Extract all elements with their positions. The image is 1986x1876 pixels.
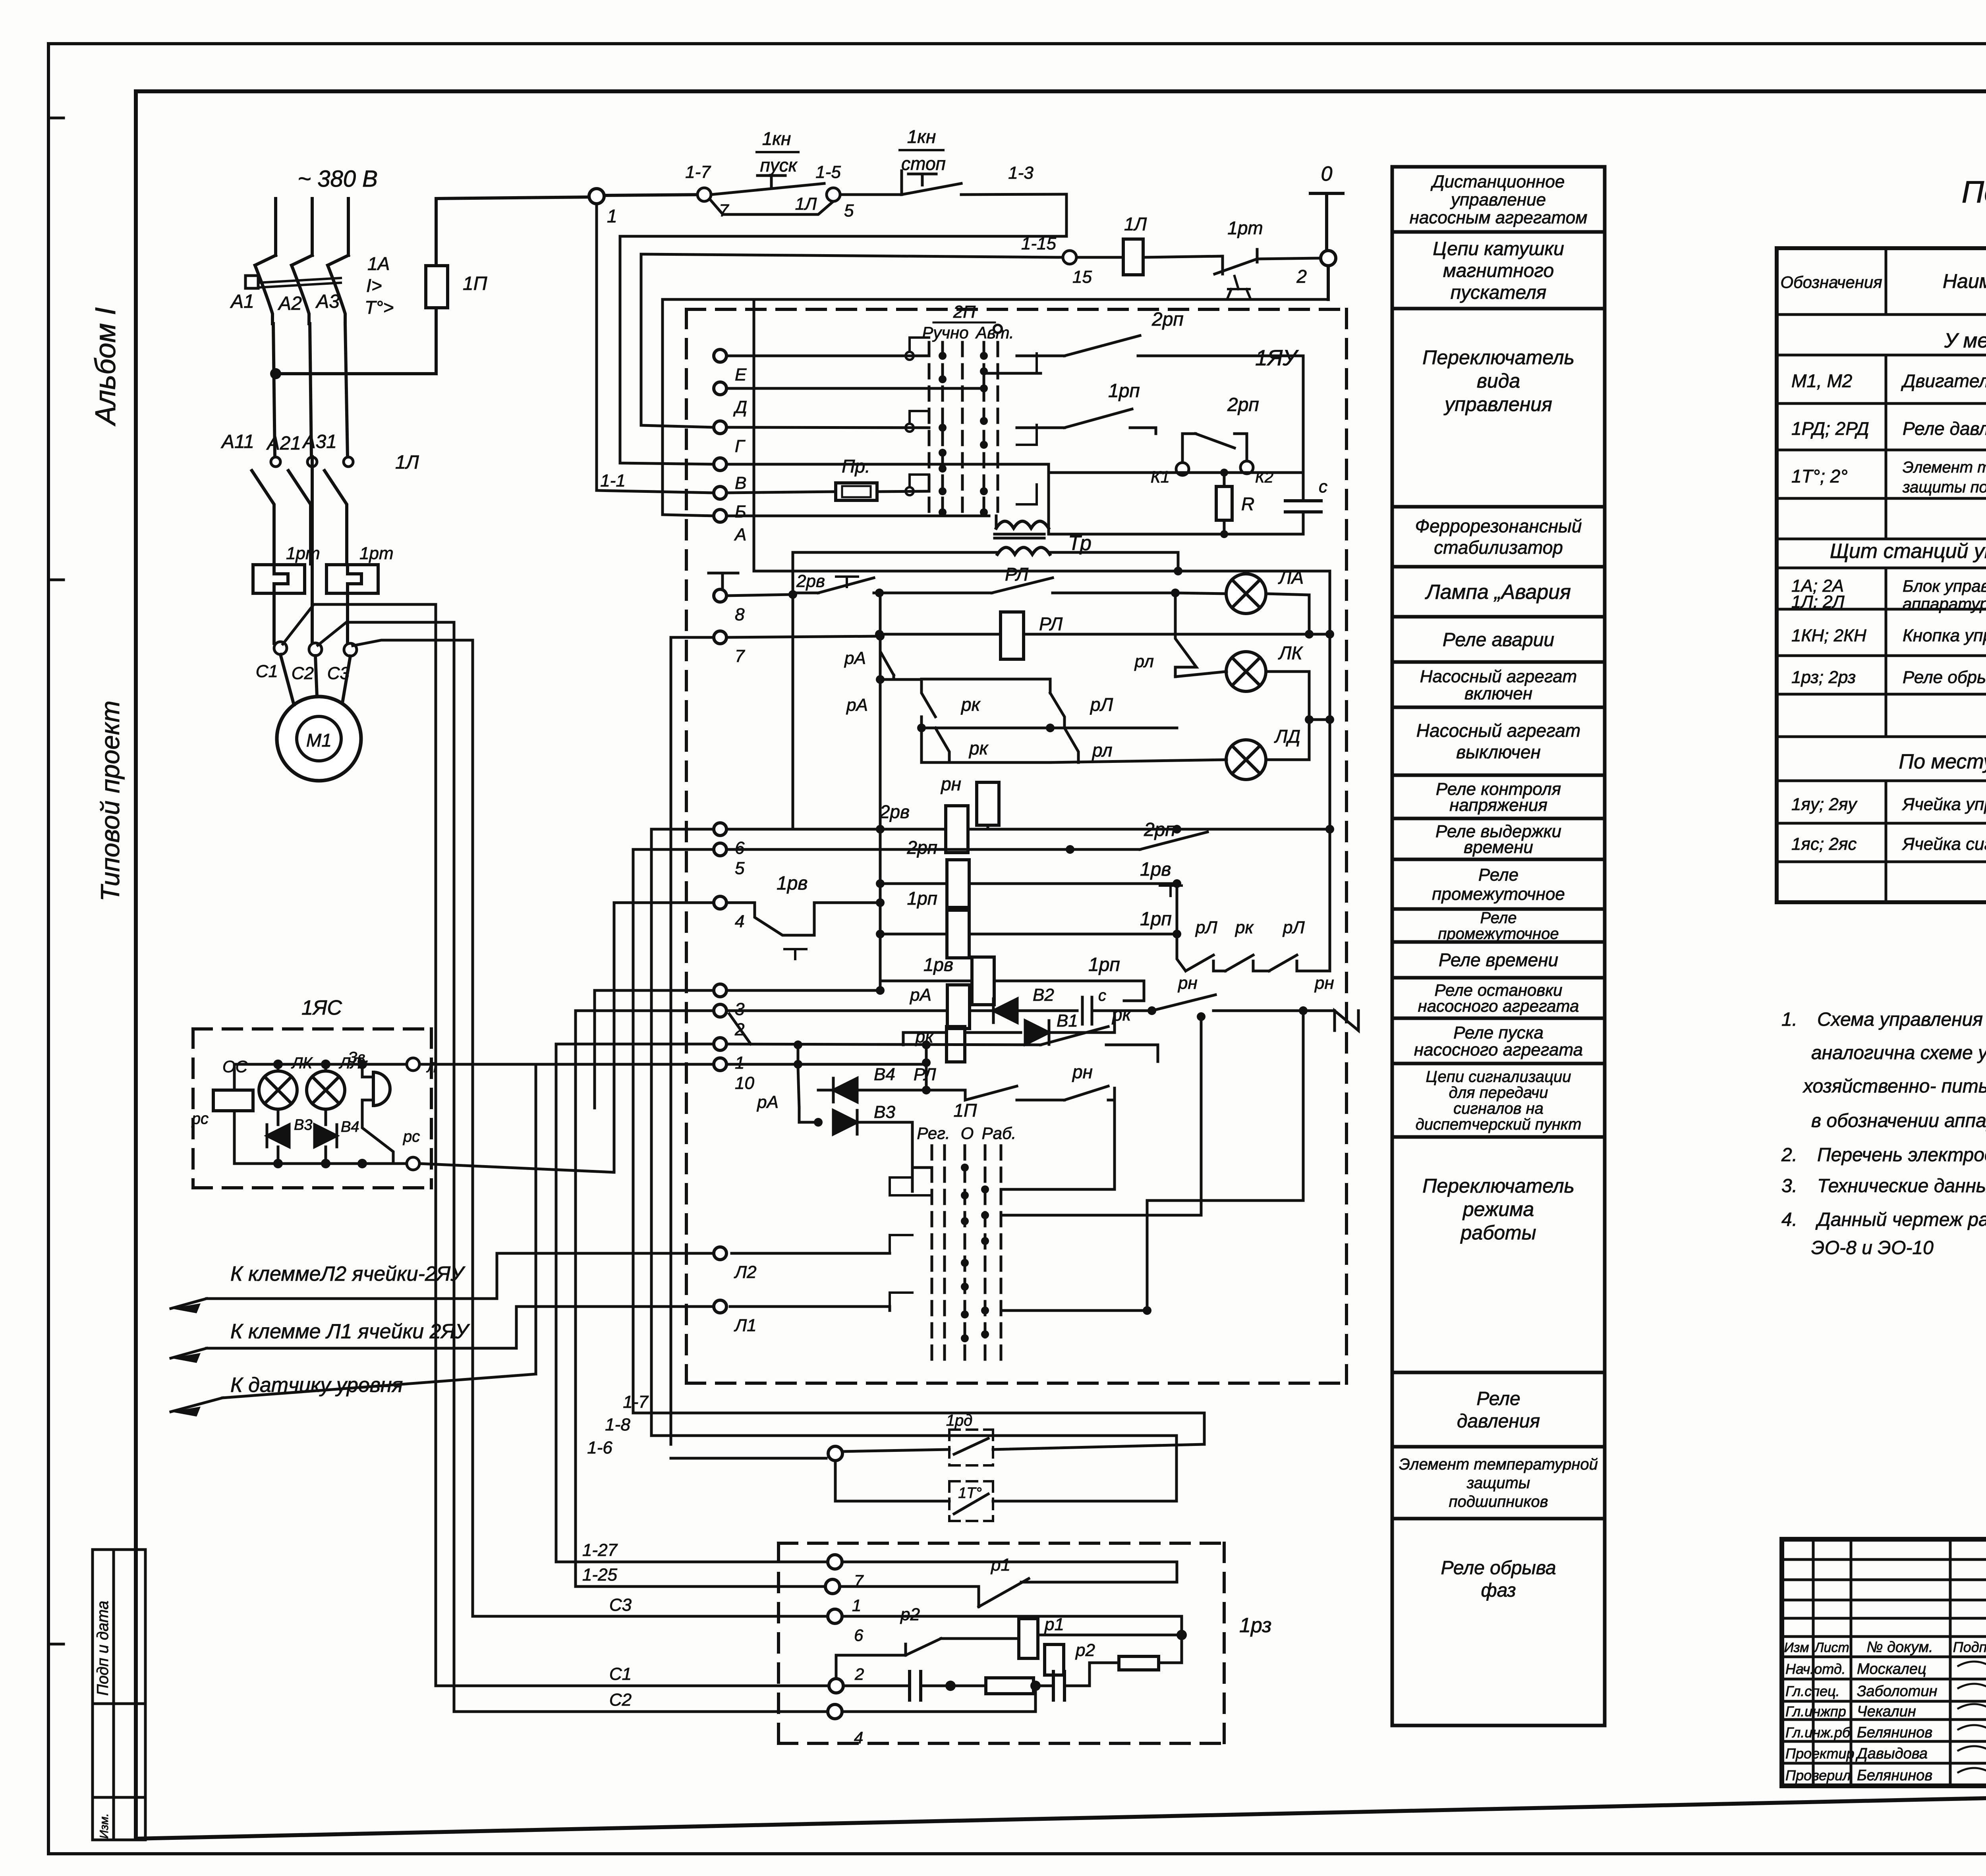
terminal 0 of control supply xyxy=(1310,162,1343,251)
svg-text:Гл.инж.рб: Гл.инж.рб xyxy=(1785,1724,1851,1741)
wire terminal Е row to switch xyxy=(726,355,929,357)
row 1 wire with contact рк xyxy=(726,1004,1158,1062)
svg-text:р2: р2 xyxy=(1075,1641,1095,1660)
terminal 6 of 1рз xyxy=(828,1609,864,1644)
terminal С3 xyxy=(344,643,357,656)
pressure relay contact 1рд dashed box xyxy=(946,1412,1204,1465)
svg-text:4: 4 xyxy=(854,1728,863,1747)
svg-text:пускателя: пускателя xyxy=(1451,282,1547,303)
svg-text:пуск: пуск xyxy=(760,155,798,176)
svg-text:В3: В3 xyxy=(874,1102,895,1122)
svg-text:По месту: По месту xyxy=(1899,750,1986,773)
svg-text:Л2: Л2 xyxy=(734,1262,757,1282)
svg-text:1кн: 1кн xyxy=(762,128,791,149)
svg-text:1рв: 1рв xyxy=(777,873,808,894)
mode switch 2П dashed gang lines xyxy=(929,342,998,520)
svg-text:R: R xyxy=(1241,494,1254,514)
terminal 3 of cell 1ЯУ xyxy=(714,984,745,1019)
row 1ЯС 2ЯС Ячейка сигнализации xyxy=(1791,833,1986,854)
signal cell 1ЯС dashed enclosure xyxy=(193,996,431,1188)
row 3 wire xyxy=(726,989,880,992)
svg-text:С2: С2 xyxy=(609,1690,632,1710)
svg-text:Гл.инжпр: Гл.инжпр xyxy=(1785,1703,1846,1720)
svg-text:рЛ: рЛ xyxy=(1090,694,1113,715)
wire terminal Б row to fuse Пр xyxy=(726,492,836,493)
function box Насосный агрегат xyxy=(1392,662,1605,707)
svg-text:рк: рк xyxy=(1111,1004,1132,1025)
wire from node to fuse 1П xyxy=(276,308,436,374)
vertical loop wire x1561 down to terminal В xyxy=(620,236,714,464)
wire fuse to node 1 bus xyxy=(436,197,597,199)
function box Реле пуска xyxy=(1392,1018,1605,1063)
svg-text:вида: вида xyxy=(1477,370,1520,392)
svg-text:с: с xyxy=(1098,987,1106,1004)
svg-text:В: В xyxy=(735,473,746,493)
svg-text:А2: А2 xyxy=(277,293,302,314)
svg-text:Е: Е xyxy=(735,365,747,384)
wire pole1 down to terminal C1 xyxy=(272,593,276,643)
wire and arrow К клемме Л1 ячейки 2ЯУ xyxy=(171,1320,516,1363)
function box Элемент температурной xyxy=(1392,1447,1605,1519)
diode В4 in 1ЯС xyxy=(315,1109,359,1168)
svg-text:I>: I> xyxy=(366,275,382,296)
svg-text:1Т°; 2°: 1Т°; 2° xyxy=(1791,466,1848,486)
svg-text:Обозначения: Обозначения xyxy=(1780,273,1882,291)
svg-text:1-5: 1-5 xyxy=(815,162,841,182)
wire from р2 coil to resistor branch xyxy=(1064,1660,1090,1660)
interlock contact 2рп with K1 K2 xyxy=(1151,394,1273,486)
wire stabilizer secondary right to common bus xyxy=(1050,552,1182,575)
motor M1 pump motor xyxy=(277,654,361,781)
row 6 with time relay coil 2рв xyxy=(726,801,1334,853)
svg-text:Проектир: Проектир xyxy=(1785,1745,1855,1762)
svg-text:В2: В2 xyxy=(1033,985,1054,1005)
return wire row y754 from node 2 xyxy=(663,266,1328,299)
svg-text:Перечень электрооборудования с: Перечень электрооборудования составлен д… xyxy=(1817,1145,1986,1166)
svg-text:защиты: защиты xyxy=(1466,1475,1530,1492)
svg-text:1-7: 1-7 xyxy=(623,1392,649,1412)
lamp ЛК in 1ЯС xyxy=(259,1054,313,1109)
function description boxes column xyxy=(1392,167,1605,1725)
svg-text:Л: Л xyxy=(426,1059,437,1075)
svg-text:Москалец: Москалец xyxy=(1857,1661,1926,1677)
row 10 wire xyxy=(726,1045,931,1088)
wire phase A31 xyxy=(345,324,348,457)
terminal 8 of cell 1ЯУ xyxy=(714,589,745,624)
diode В4 branch xyxy=(818,1065,931,1102)
svg-text:Ручно: Ручно xyxy=(922,323,968,342)
svg-text:напряжения: напряжения xyxy=(1449,795,1547,815)
switch pole hooks left column xyxy=(906,338,929,495)
function box Дистанционное xyxy=(1392,167,1605,232)
svg-text:Лист: Лист xyxy=(1814,1640,1849,1655)
svg-text:управления: управления xyxy=(1443,393,1552,415)
loop wire x1614 to coil 1Л row xyxy=(641,254,1063,257)
wire bundle verticals xyxy=(436,604,671,1712)
terminal 4 of 1рз xyxy=(828,1704,863,1747)
svg-text:р1: р1 xyxy=(1044,1615,1064,1634)
svg-text:А31: А31 xyxy=(302,431,337,452)
svg-text:Переключатель: Переключатель xyxy=(1422,346,1575,369)
svg-text:времени: времени xyxy=(1464,838,1533,857)
terminal Б of cell 1ЯУ xyxy=(714,486,746,521)
svg-text:р1: р1 xyxy=(990,1555,1010,1575)
svg-text:Наименование: Наименование xyxy=(1943,270,1986,292)
svg-text:1рт: 1рт xyxy=(359,544,394,563)
function box Реле контроля xyxy=(1392,775,1605,818)
lamp ЛЛ in 1ЯС xyxy=(307,1054,361,1109)
wire С2 row 4 of 1рз xyxy=(454,1686,1036,1712)
phase bus A2 xyxy=(311,199,314,255)
lamp ЛК pump on xyxy=(1175,643,1309,720)
diode В3 in 1ЯС xyxy=(267,1109,312,1168)
phase-failure relay 1рз dashed enclosure xyxy=(779,1543,1271,1743)
circuit breaker 1А with linked poles xyxy=(245,255,348,324)
svg-text:2рв: 2рв xyxy=(879,801,910,822)
svg-text:С1: С1 xyxy=(609,1664,632,1684)
alarm relay coil РЛ xyxy=(875,612,1334,659)
switch 1П output row mid xyxy=(1001,1011,1303,1241)
svg-text:М1, М2: М1, М2 xyxy=(1791,371,1852,391)
contactor coil 1Л xyxy=(1076,214,1147,275)
svg-text:1рп: 1рп xyxy=(1140,909,1172,930)
function box Реле остановки xyxy=(1392,978,1605,1018)
svg-text:Проверил: Проверил xyxy=(1785,1767,1851,1783)
svg-text:Д: Д xyxy=(733,398,747,417)
wire 1-25 row 1 with contact р1 xyxy=(576,1555,1029,1607)
wire node1 to terminal 1-7 xyxy=(604,195,704,195)
svg-text:Реле: Реле xyxy=(1478,865,1518,885)
svg-text:А: А xyxy=(734,525,746,544)
svg-text:1ЯС: 1ЯС xyxy=(301,996,342,1019)
svg-text:Схема управления хозяйственно: Схема управления хозяйственно - питьевым… xyxy=(1817,1009,1986,1030)
svg-text:давления: давления xyxy=(1457,1411,1540,1432)
svg-text:С1: С1 xyxy=(256,662,278,681)
svg-text:подшипников: подшипников xyxy=(1449,1493,1548,1511)
wire С3 row 6 of 1рз xyxy=(473,1595,1187,1640)
svg-text:№ докум.: № докум. xyxy=(1866,1639,1933,1656)
svg-text:РЛ: РЛ xyxy=(1039,614,1063,634)
upper resistor of 1рз xyxy=(1090,1635,1182,1670)
svg-text:сигналов на: сигналов на xyxy=(1453,1100,1544,1117)
contact 1рп on Г row xyxy=(1017,380,1156,428)
push button 1КН ПУСК normally open xyxy=(711,128,824,195)
wire loop to terminal Г xyxy=(641,254,714,427)
bell Зв in 1ЯС xyxy=(348,1049,390,1106)
relay coil РК with diode В1 branch xyxy=(903,1011,1115,1062)
svg-text:Кнопка управления: Кнопка управления xyxy=(1903,626,1986,645)
svg-text:10: 10 xyxy=(735,1073,754,1093)
switch pole hooks right column xyxy=(994,325,1037,504)
svg-text:1рв: 1рв xyxy=(923,954,953,975)
row 2 wire with diode В2 and capacitor С xyxy=(726,985,1156,1024)
wire row Л1 into switch xyxy=(730,1307,890,1310)
relay coil р1 of 1рз xyxy=(941,1615,1182,1658)
terminal 7 of cell 1ЯУ xyxy=(714,631,745,666)
lamp row ЛА with contact 2рв and РЛ xyxy=(726,564,1227,599)
row 1КН 2КН Кнопка управления xyxy=(1791,625,1986,645)
svg-text:Л1: Л1 xyxy=(734,1316,757,1335)
function box Феррорезонансный xyxy=(1392,507,1605,567)
terminal В of cell 1ЯУ xyxy=(714,458,746,493)
wire 1 vertical from node1 down to terminal Б with mark 1-1 xyxy=(597,204,714,493)
wire 1ЯС lower to bundle xyxy=(419,1164,614,1172)
svg-text:рл: рл xyxy=(1092,740,1113,760)
svg-text:ЛК: ЛК xyxy=(1278,643,1304,663)
svg-text:Реле аварии: Реле аварии xyxy=(1443,629,1554,650)
svg-text:2П: 2П xyxy=(953,302,976,322)
wire terminal Д row to switch xyxy=(726,371,984,388)
svg-text:рл: рл xyxy=(1134,652,1154,671)
svg-text:Белянинов: Белянинов xyxy=(1857,1767,1932,1784)
svg-text:стоп: стоп xyxy=(901,153,946,174)
temperature element contact 1Т° dashed box xyxy=(835,1461,1177,1521)
svg-text:6: 6 xyxy=(854,1626,864,1644)
left margin stamp box Подп и дата xyxy=(93,1550,145,1840)
svg-text:2рп: 2рп xyxy=(907,837,937,858)
svg-text:выключен: выключен xyxy=(1456,742,1541,762)
contact 2рп to Е row xyxy=(1017,309,1303,356)
wire pole2 down to terminal C2 xyxy=(311,457,314,643)
intermediate relay coil 1рп xyxy=(876,888,1181,958)
svg-text:ЛК: ЛК xyxy=(291,1054,313,1072)
svg-text:2: 2 xyxy=(854,1665,864,1683)
svg-text:Феррорезонансный: Феррорезонансный xyxy=(1415,515,1582,536)
terminal С2 xyxy=(309,643,322,656)
svg-text:С3: С3 xyxy=(609,1595,632,1615)
svg-text:ЛД: ЛД xyxy=(1274,726,1300,747)
svg-text:1яс; 2яс: 1яс; 2яс xyxy=(1791,834,1857,854)
contact РЛ normally closed chevron xyxy=(1134,593,1196,677)
svg-text:Т°>: Т°> xyxy=(365,297,394,318)
svg-text:1рд: 1рд xyxy=(946,1412,973,1429)
svg-text:2рв: 2рв xyxy=(796,571,825,591)
svg-text:Реле времени: Реле времени xyxy=(1439,950,1558,970)
svg-text:режима: режима xyxy=(1462,1198,1534,1220)
svg-text:К клемме Л1 ячейки 2ЯУ: К клемме Л1 ячейки 2ЯУ xyxy=(230,1320,470,1343)
wire 1-7 row xyxy=(623,1392,1204,1444)
wire terminal А row xyxy=(726,515,989,517)
contact 1рв with time symbol on row 4 xyxy=(726,873,885,959)
function box Реле обрыва xyxy=(1392,1519,1605,1725)
svg-text:2рп: 2рп xyxy=(1227,394,1259,415)
svg-text:диспетчерский пункт: диспетчерский пункт xyxy=(1416,1116,1582,1133)
svg-text:рк: рк xyxy=(960,694,981,715)
contact р2 of 1рз xyxy=(836,1605,941,1679)
svg-text:А3: А3 xyxy=(315,291,340,312)
terminal 1 of cell 1ЯУ xyxy=(714,1038,744,1073)
svg-text:рк: рк xyxy=(968,738,989,759)
contactor 1Л main contacts xyxy=(252,452,419,564)
svg-text:Цепи сигнализации: Цепи сигнализации xyxy=(1426,1068,1571,1086)
svg-text:РЛ: РЛ xyxy=(1005,564,1029,585)
ferroresonant stabilizer transformer Тр xyxy=(995,516,1092,555)
svg-text:У механизма: У механизма xyxy=(1944,329,1986,352)
relay coil ОС in 1ЯС xyxy=(213,1057,253,1111)
svg-text:Белянинов: Белянинов xyxy=(1857,1724,1932,1741)
svg-text:РЛ: РЛ xyxy=(914,1065,936,1084)
terminal 1-5 xyxy=(815,162,854,220)
left rail of relay block x2216 xyxy=(879,593,882,990)
right bus of relay block vertical x3281 upper xyxy=(1302,356,1305,492)
vertical loop x1668 down to terminal А xyxy=(663,299,714,516)
snubber resistor R xyxy=(1216,473,1254,534)
svg-text:Элемент температурной: Элемент температурной xyxy=(1399,1455,1598,1473)
svg-text:1-27: 1-27 xyxy=(582,1540,618,1560)
svg-text:А11: А11 xyxy=(220,431,254,452)
svg-text:1рз; 2рз: 1рз; 2рз xyxy=(1791,668,1856,687)
svg-text:Данный чертеж рассматривать с: Данный чертеж рассматривать с чертежами … xyxy=(1815,1209,1986,1230)
wire K network to RC xyxy=(1049,464,1303,538)
svg-text:1рт: 1рт xyxy=(286,544,320,563)
terminal 2 of 1рз xyxy=(829,1665,864,1693)
svg-text:1-25: 1-25 xyxy=(582,1565,618,1585)
phase bus A3 xyxy=(347,199,350,255)
relay coil р2 of 1рз xyxy=(1045,1635,1095,1675)
grounding symbol above terminal 8 xyxy=(709,573,738,589)
svg-text:аналогична схеме управления: аналогична схеме управления xyxy=(1811,1042,1986,1063)
svg-text:0: 0 xyxy=(1321,162,1333,185)
wire terminal Г row to switch xyxy=(726,427,929,428)
switch 1П output row lower to rail xyxy=(1001,1200,1303,1315)
svg-text:рА: рА xyxy=(844,648,866,668)
svg-text:рн: рн xyxy=(1072,1062,1093,1082)
terminal Е of cell 1ЯУ xyxy=(714,349,747,384)
svg-text:А1: А1 xyxy=(230,291,254,312)
svg-text:1яу; 2яу: 1яу; 2яу xyxy=(1791,795,1858,814)
svg-text:Реле обрыва фаз: Реле обрыва фаз xyxy=(1903,668,1986,687)
second contact РН right xyxy=(1303,971,1358,1031)
svg-text:М1: М1 xyxy=(306,730,332,751)
terminal 7 of 1рз xyxy=(828,1555,864,1590)
contact РЛ mid xyxy=(914,1065,1017,1100)
row М1 М2 Двигатель насоса xyxy=(1791,371,1986,391)
svg-text:промежуточное: промежуточное xyxy=(1432,884,1565,904)
svg-text:Реле давления: Реле давления xyxy=(1903,418,1986,439)
thermal relay 1рт heater pole 1 xyxy=(253,544,320,593)
terminal circles on 1ЯС rails xyxy=(407,1058,437,1170)
svg-text:Заболотин: Заболотин xyxy=(1857,1683,1937,1700)
contact РН mid right xyxy=(1017,1062,1115,1187)
svg-text:4: 4 xyxy=(735,912,744,931)
left rail x1996 of relay block xyxy=(792,552,794,829)
svg-text:хозяйственно- питьевым насосо: хозяйственно- питьевым насосом N1 с заме… xyxy=(1802,1076,1986,1097)
svg-text:Гл.спец.: Гл.спец. xyxy=(1785,1683,1840,1699)
svg-text:Блок управления с: Блок управления с xyxy=(1903,577,1986,595)
svg-text:К1: К1 xyxy=(1151,467,1170,486)
svg-text:с: с xyxy=(1319,477,1327,496)
function box Реле xyxy=(1392,909,1605,942)
row 1ЯУ 2ЯУ Ячейка управления xyxy=(1791,793,1986,814)
row 2 of 1рз with capacitors and resistor xyxy=(436,1663,1090,1700)
svg-text:Цепи катушки: Цепи катушки xyxy=(1433,238,1564,259)
svg-text:1рп: 1рп xyxy=(1108,380,1140,401)
wire С1 junction up to control bundle xyxy=(283,604,436,644)
aux self-hold contact 1Л parallel to start button xyxy=(711,194,833,214)
function box Реле аварии xyxy=(1392,617,1605,662)
right rail x3348 xyxy=(1329,571,1331,828)
svg-text:Реле обрыва: Реле обрыва xyxy=(1441,1558,1556,1579)
svg-text:рЛ: рЛ xyxy=(1282,918,1305,937)
labels 2П Ручно Авт xyxy=(922,302,1014,342)
function box Переключатель xyxy=(1392,309,1605,507)
terminal 6 of cell 1ЯУ xyxy=(714,823,745,858)
svg-text:1рт: 1рт xyxy=(1227,218,1263,238)
svg-text:А21: А21 xyxy=(266,433,301,454)
lamp ЛД pump off xyxy=(1050,715,1334,780)
svg-text:рс: рс xyxy=(403,1128,420,1145)
svg-text:1П: 1П xyxy=(954,1100,978,1121)
title block left grid xyxy=(1782,1539,1986,1786)
wire С2 junction up to control bundle xyxy=(318,622,454,645)
svg-text:1Л; 2Л: 1Л; 2Л xyxy=(1791,592,1845,612)
function box Реле xyxy=(1392,1372,1605,1447)
svg-text:в обозначении аппаратуры и мар: в обозначении аппаратуры и маркировки це… xyxy=(1811,1110,1986,1131)
svg-text:1-8: 1-8 xyxy=(605,1415,630,1434)
node 1 junction circle xyxy=(589,189,617,226)
svg-text:Насосный агрегат: Насосный агрегат xyxy=(1420,667,1577,686)
control fuse Пр xyxy=(836,456,929,500)
svg-text:Насосный агрегат: Насосный агрегат xyxy=(1416,720,1580,741)
svg-text:Лампа „Авария: Лампа „Авария xyxy=(1425,581,1571,604)
svg-text:Переключатель: Переключатель xyxy=(1422,1175,1575,1197)
svg-text:1-7: 1-7 xyxy=(685,162,711,182)
function box Лампа „Авария xyxy=(1392,567,1605,617)
svg-text:Реле: Реле xyxy=(1480,909,1517,927)
svg-text:2рп: 2рп xyxy=(1144,819,1176,840)
wire phase A11 xyxy=(273,324,275,457)
function box Переключатель xyxy=(1392,1137,1605,1372)
bottom rail of 1ЯС xyxy=(234,1162,413,1165)
svg-text:5: 5 xyxy=(735,859,745,878)
svg-text:Подпись: Подпись xyxy=(1953,1639,1986,1655)
function box Реле выдержки xyxy=(1392,818,1605,859)
svg-text:работы: работы xyxy=(1460,1222,1536,1244)
svg-text:аппаратурой: аппаратурой xyxy=(1903,594,1986,613)
contact РС in 1ЯС xyxy=(357,1100,420,1168)
contact РА pair on row 7 xyxy=(726,632,935,717)
terminal 1-7 xyxy=(685,162,729,220)
svg-text:Пр.: Пр. xyxy=(842,456,870,477)
title block frame xyxy=(1782,1539,1986,1786)
registration tick marks on left border xyxy=(48,118,64,1644)
label 1А I> T°> of breaker xyxy=(365,253,394,318)
terminal 4 of cell 1ЯУ xyxy=(714,896,744,931)
svg-text:ЛА: ЛА xyxy=(1278,567,1304,588)
common bus y1438 xyxy=(754,299,1330,571)
svg-text:стабилизатор: стабилизатор xyxy=(1434,537,1563,558)
terminal 1-15 circle xyxy=(1021,234,1092,287)
wire terminal В row across xyxy=(726,463,1049,466)
jumper terminal 2 to row 1 xyxy=(729,1014,751,1044)
svg-text:В4: В4 xyxy=(341,1119,359,1135)
svg-text:Двигатель насоса: Двигатель насоса xyxy=(1901,371,1986,391)
switch 1П dashed gang lines xyxy=(932,1146,1001,1366)
svg-text:Типовой проект: Типовой проект xyxy=(95,701,125,901)
svg-text:Подп и дата: Подп и дата xyxy=(94,1601,112,1696)
notes text block xyxy=(1781,1009,1986,1258)
svg-text:Альбом I: Альбом I xyxy=(90,307,122,427)
labels С1 С2 С3 xyxy=(256,662,350,683)
svg-text:насосного агрегата: насосного агрегата xyxy=(1414,1040,1583,1060)
terminal 5 of cell 1ЯУ xyxy=(714,843,745,878)
terminal Л2 of cell 1ЯУ xyxy=(714,1247,757,1282)
contact РН on row 2 xyxy=(1152,973,1308,1015)
svg-text:1рв: 1рв xyxy=(1140,859,1171,880)
svg-text:защиты подшипников: защиты подшипников xyxy=(1902,479,1986,496)
svg-text:1: 1 xyxy=(852,1596,861,1615)
svg-text:рн: рн xyxy=(1177,973,1198,993)
